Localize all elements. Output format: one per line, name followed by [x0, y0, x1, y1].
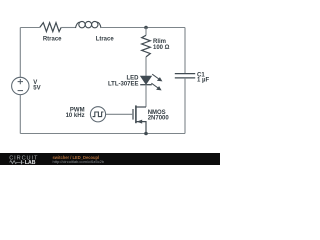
wire bottom horizontal	[20, 133, 185, 135]
CircuitLab logo	[0, 152, 55, 165]
resistor Rtrace	[40, 23, 62, 43]
inductor Ltrace	[76, 21, 115, 42]
wire right vertical upper	[184, 28, 186, 74]
svg-text:10 kHz: 10 kHz	[66, 113, 85, 119]
resistor Rlim 100 ohm	[142, 35, 170, 57]
wire PWM to gate	[106, 113, 133, 115]
node junction bottom	[144, 132, 148, 136]
footer title text	[53, 155, 100, 160]
wire middle branch top	[145, 28, 147, 36]
svg-text:Ltrace: Ltrace	[96, 37, 115, 43]
footer watermark bar	[0, 153, 220, 166]
wire left vertical upper	[19, 28, 21, 78]
transistor Q1 NMOS 2N7000	[133, 105, 169, 133]
wire top-right horizontal	[101, 27, 185, 29]
wire between Rtrace and Ltrace	[61, 27, 75, 29]
PWM source 10 kHz	[66, 107, 106, 122]
svg-text:5V: 5V	[33, 86, 40, 92]
capacitor C1 1uF	[175, 72, 210, 83]
LED D1 LTL-307EE	[108, 74, 162, 90]
wire LED to NMOS drain	[145, 85, 147, 107]
wire left vertical lower	[19, 95, 21, 134]
svg-text:Rtrace: Rtrace	[43, 37, 62, 43]
svg-text:2N7000: 2N7000	[148, 115, 170, 121]
footer url text	[53, 159, 105, 164]
svg-text:100 Ω: 100 Ω	[153, 45, 170, 51]
wire Rlim to LED	[145, 57, 147, 76]
svg-text:LAB: LAB	[25, 160, 36, 165]
voltage source V1 5V	[12, 77, 41, 94]
node junction top	[144, 26, 148, 30]
svg-text:1 µF: 1 µF	[197, 78, 209, 84]
wire top-left horizontal	[20, 27, 40, 29]
wire right vertical lower	[184, 78, 186, 134]
svg-text:LTL-307EE: LTL-307EE	[108, 81, 139, 87]
